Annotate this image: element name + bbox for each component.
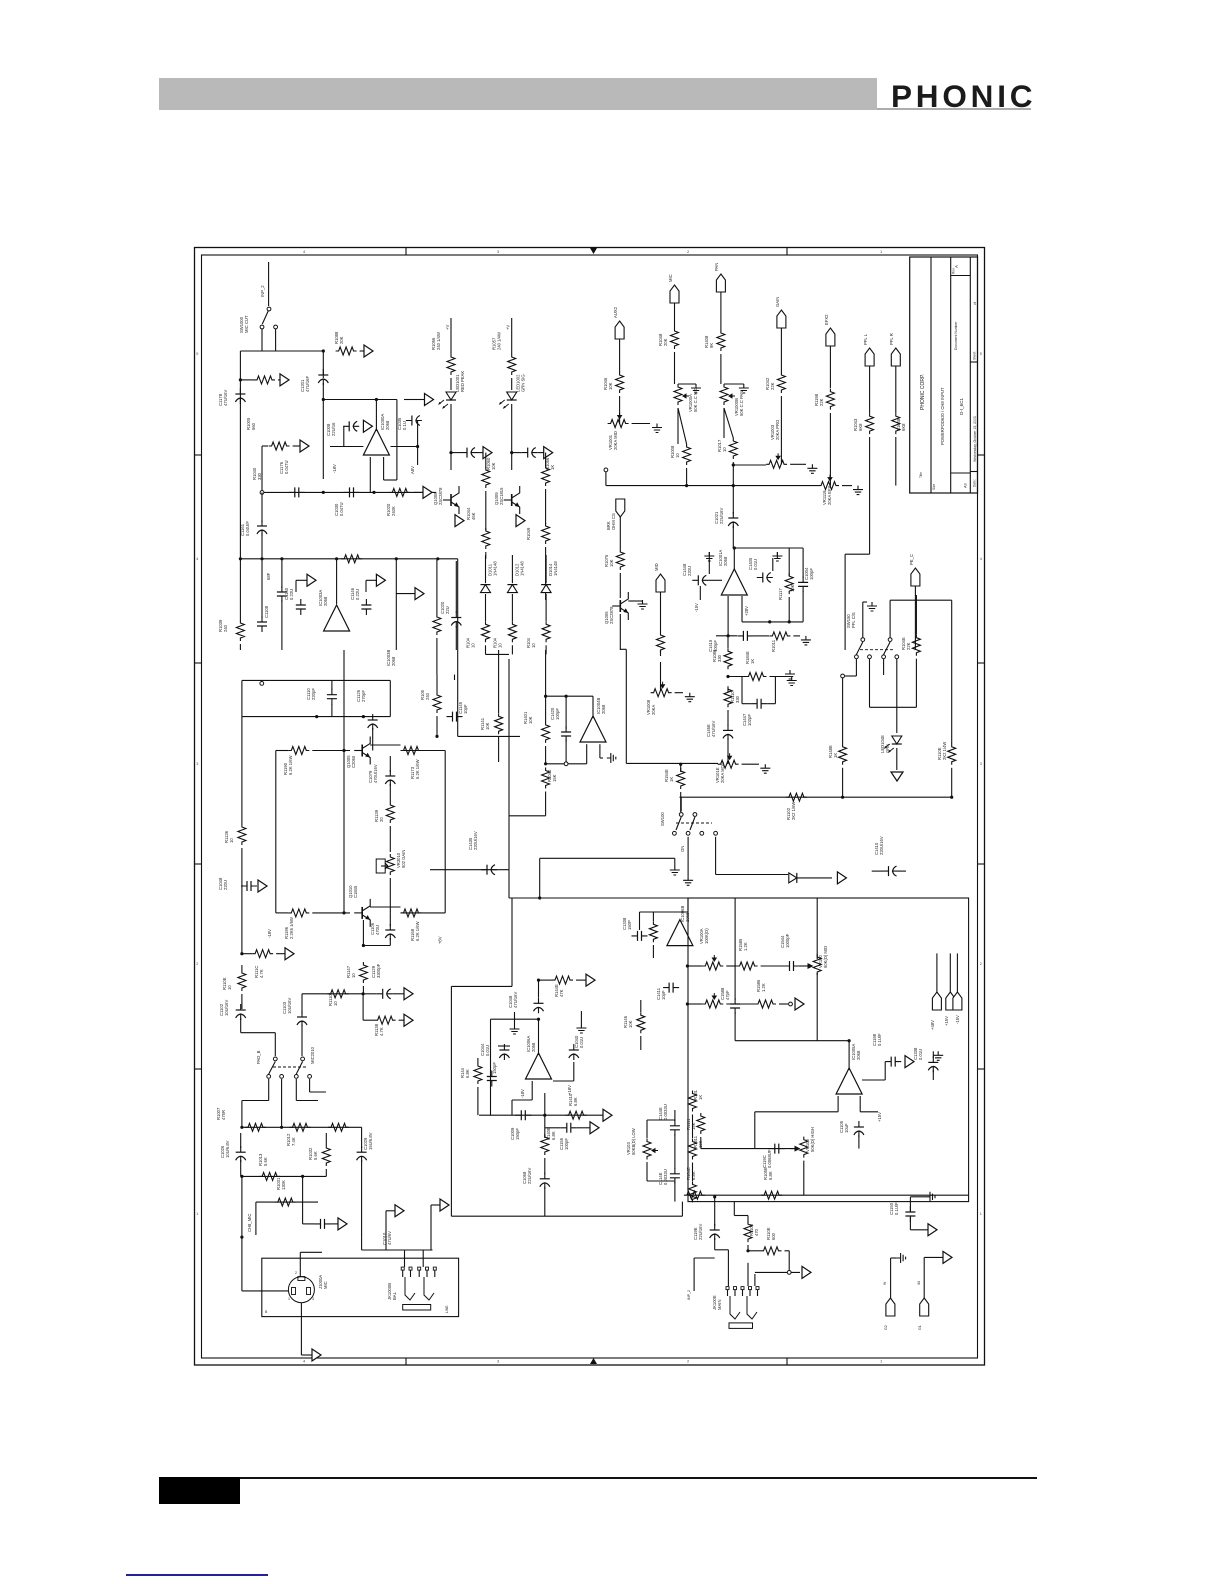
svg-text:47pF: 47pF: [725, 990, 730, 1000]
svg-text:330: 330: [257, 472, 262, 480]
svg-text:1K: 1K: [833, 753, 838, 758]
svg-text:10U/16V: 10U/16V: [287, 997, 292, 1014]
svg-text:GAIN: GAIN: [775, 297, 780, 307]
svg-text:15K: 15K: [552, 774, 557, 782]
svg-text:R1049: R1049: [526, 527, 531, 540]
svg-text:10K: 10K: [491, 462, 496, 470]
svg-text:2068: 2068: [601, 704, 606, 714]
svg-text:0.0068UF: 0.0068UF: [767, 1149, 772, 1168]
svg-text:15K: 15K: [691, 1122, 696, 1130]
svg-text:10: 10: [471, 643, 476, 648]
svg-text:475R: 475R: [221, 1110, 226, 1120]
svg-text:470U/16V: 470U/16V: [373, 764, 378, 783]
svg-text:10: 10: [333, 1001, 338, 1006]
svg-text:0.01U: 0.01U: [579, 1037, 584, 1048]
svg-text:4.7K: 4.7K: [259, 969, 264, 978]
svg-text:PAD_B: PAD_B: [256, 1050, 261, 1064]
svg-text:of: of: [973, 302, 977, 305]
svg-text:POWERPOD620 / CH8 INPUT: POWERPOD620 / CH8 INPUT: [940, 387, 945, 445]
svg-text:1K: 1K: [698, 1095, 703, 1100]
svg-text:+8V: +8V: [438, 936, 443, 944]
svg-text:220U: 220U: [687, 566, 692, 576]
svg-text:Title: Title: [919, 472, 923, 478]
svg-text:22K: 22K: [819, 398, 824, 406]
svg-text:330: 330: [717, 654, 722, 662]
svg-text:2068: 2068: [723, 556, 728, 566]
svg-text:+15V: +15V: [877, 1112, 882, 1122]
svg-text:240K: 240K: [391, 506, 396, 516]
svg-text:50K(D) MID: 50K(D) MID: [823, 946, 828, 968]
svg-text:0.01U: 0.01U: [485, 1045, 490, 1056]
svg-text:1N4148: 1N4148: [519, 561, 524, 576]
svg-text:20KA MID: 20KA MID: [613, 431, 618, 450]
svg-text:20KA MON: 20KA MON: [720, 762, 725, 783]
svg-text:22U/16V: 22U/16V: [698, 1223, 703, 1240]
svg-text:2SC1815: 2SC1815: [499, 487, 504, 505]
svg-text:2068: 2068: [391, 656, 396, 666]
svg-text:6K8: 6K8: [858, 423, 863, 431]
svg-text:GRN SIG: GRN SIG: [521, 374, 526, 392]
svg-text:2: 2: [295, 1271, 297, 1275]
svg-text:1N4148: 1N4148: [553, 561, 558, 576]
svg-text:50K C.C PAN: 50K C.C PAN: [739, 391, 744, 416]
svg-text:220pF: 220pF: [311, 688, 316, 700]
svg-text:22U/16: 22U/16: [331, 422, 336, 436]
svg-text:150pF: 150pF: [492, 1062, 497, 1074]
svg-text:SW100: SW100: [660, 812, 665, 826]
svg-text:+V: +V: [506, 325, 511, 330]
svg-text:Document Number: Document Number: [954, 321, 958, 350]
svg-text:20K: 20K: [339, 336, 344, 344]
svg-text:1K: 1K: [750, 659, 755, 664]
svg-text:6.2K 1/6W: 6.2K 1/6W: [415, 759, 420, 779]
svg-text:+V: +V: [445, 325, 450, 330]
svg-text:1000pF: 1000pF: [785, 933, 790, 948]
svg-text:4: 4: [980, 557, 982, 561]
svg-text:240 1/4W: 240 1/4W: [436, 332, 441, 350]
svg-text:50K(D) HIGH: 50K(D) HIGH: [810, 1127, 815, 1152]
svg-text:1K: 1K: [669, 777, 674, 782]
svg-text:-18V: -18V: [267, 929, 272, 938]
svg-text:220U/16V: 220U/16V: [879, 836, 884, 855]
svg-text:Size: Size: [932, 484, 936, 490]
svg-text:10: 10: [675, 453, 680, 458]
svg-text:150pF: 150pF: [515, 1128, 520, 1140]
svg-text:PAN: PAN: [714, 263, 719, 271]
svg-text:10K: 10K: [628, 1020, 633, 1028]
svg-text:6.8K: 6.8K: [573, 1097, 578, 1106]
svg-text:2SC2878: 2SC2878: [609, 606, 614, 624]
svg-text:ON: ON: [680, 846, 685, 852]
svg-text:A3: A3: [964, 483, 968, 488]
svg-text:22U: 22U: [445, 606, 450, 614]
svg-text:PFL R: PFL R: [889, 333, 894, 345]
svg-text:2068: 2068: [856, 1050, 861, 1060]
svg-text:10uF: 10uF: [844, 1123, 849, 1133]
svg-text:600: 600: [771, 1232, 776, 1240]
svg-text:47U/16F: 47U/16F: [305, 375, 310, 392]
svg-text:50KB(D) LOW: 50KB(D) LOW: [631, 1128, 636, 1155]
svg-text:10: 10: [531, 643, 536, 648]
svg-text:3: 3: [196, 762, 198, 766]
svg-text:RED PEAK: RED PEAK: [460, 371, 465, 392]
svg-text:470: 470: [754, 1228, 759, 1236]
svg-text:100pF: 100pF: [564, 1138, 569, 1150]
svg-text:470U: 470U: [375, 925, 380, 935]
svg-text:10pF: 10pF: [661, 990, 666, 1000]
svg-text:-18V: -18V: [520, 1089, 525, 1098]
svg-text:560: 560: [251, 422, 256, 430]
svg-text:2: 2: [196, 962, 198, 966]
svg-text:MIC: MIC: [323, 1281, 328, 1289]
svg-text:MIC: MIC: [668, 274, 673, 282]
svg-text:C1845: C1845: [353, 885, 358, 898]
svg-text:CH8_MIC: CH8_MIC: [247, 1214, 252, 1232]
svg-text:102pF: 102pF: [747, 714, 752, 726]
svg-text:15U/6.8V: 15U/6.8V: [368, 1132, 373, 1150]
svg-text:B: B: [265, 1310, 268, 1314]
svg-text:BAL: BAL: [392, 1291, 397, 1300]
svg-text:0.1U: 0.1U: [402, 421, 407, 430]
svg-text:1K: 1K: [550, 465, 555, 470]
svg-text:502 GAIN: 502 GAIN: [401, 850, 406, 868]
svg-text:2068: 2068: [385, 420, 390, 430]
svg-text:10pF: 10pF: [463, 704, 468, 714]
svg-text:G2: G2: [884, 1325, 888, 1330]
svg-text:MID: MID: [654, 563, 659, 571]
svg-text:6.8K: 6.8K: [465, 1069, 470, 1078]
svg-text:3: 3: [312, 1297, 314, 1301]
svg-text:0.01U: 0.01U: [753, 559, 758, 570]
svg-text:10K: 10K: [698, 1140, 703, 1148]
svg-text:22U/16V: 22U/16V: [527, 1167, 532, 1184]
svg-text:EFX2: EFX2: [824, 314, 829, 325]
svg-text:Wednesday, October 15, 2003: Wednesday, October 15, 2003: [973, 416, 977, 462]
svg-text:270pF: 270pF: [361, 690, 366, 702]
svg-text:0.1U/F: 0.1U/F: [877, 1033, 882, 1046]
svg-text:20KA: 20KA: [651, 705, 656, 715]
svg-text:7.4K: 7.4K: [291, 1137, 296, 1146]
svg-text:20KA EFX: 20KA EFX: [827, 485, 832, 505]
svg-text:Sheet: Sheet: [973, 352, 977, 360]
svg-text:240: 240: [425, 692, 430, 700]
svg-text:MIC2010: MIC2010: [310, 1046, 315, 1064]
svg-text:PFL C/S: PFL C/S: [851, 612, 856, 628]
svg-text:100pF: 100pF: [809, 568, 814, 580]
svg-text:1: 1: [880, 249, 883, 254]
svg-text:AUX2: AUX2: [613, 306, 618, 318]
svg-text:2K2 1/4W: 2K2 1/4W: [942, 742, 947, 760]
svg-text:130K: 130K: [281, 1180, 286, 1190]
svg-text:2.2K6 1/6W: 2.2K6 1/6W: [289, 917, 294, 939]
svg-text:150P: 150P: [627, 920, 632, 930]
svg-text:22K: 22K: [906, 642, 911, 650]
svg-text:2: 2: [980, 962, 982, 966]
svg-text:50K C.C MIC: 50K C.C MIC: [693, 387, 698, 412]
svg-text:A: A: [954, 265, 959, 268]
svg-text:PE_C: PE_C: [909, 554, 914, 565]
svg-text:10: 10: [722, 447, 727, 452]
svg-text:0.22U: 0.22U: [289, 589, 294, 600]
svg-text:6.8K: 6.8K: [768, 1171, 773, 1180]
svg-text:47U/16V: 47U/16V: [513, 991, 518, 1008]
svg-text:44: 44: [917, 1281, 921, 1285]
svg-text:47U/16V: 47U/16V: [711, 720, 716, 737]
svg-text:+28V: +28V: [744, 606, 749, 616]
svg-text:LINE: LINE: [445, 1305, 449, 1313]
svg-text:INP_2: INP_2: [260, 285, 265, 297]
svg-text:5: 5: [196, 352, 198, 356]
svg-text:9K: 9K: [709, 343, 714, 348]
svg-text:10K: 10K: [528, 716, 533, 724]
svg-text:10K: 10K: [609, 559, 614, 567]
svg-text:5: 5: [980, 352, 982, 356]
svg-text:2068: 2068: [531, 1042, 536, 1052]
svg-text:240: 240: [223, 624, 228, 632]
svg-text:-15V: -15V: [694, 603, 699, 612]
svg-text:3: 3: [497, 249, 500, 254]
svg-text:10U/6.8V: 10U/6.8V: [225, 1140, 230, 1158]
svg-text:C2060: C2060: [351, 755, 356, 768]
svg-text:1: 1: [196, 1212, 198, 1216]
svg-text:Date:: Date:: [973, 479, 977, 487]
svg-text:0.0033U: 0.0033U: [663, 1169, 668, 1185]
svg-text:4.7K: 4.7K: [379, 1027, 384, 1036]
svg-text:INP_2: INP_2: [687, 1290, 691, 1300]
svg-text:47K: 47K: [559, 989, 564, 997]
svg-text:MAIN: MAIN: [717, 1300, 722, 1310]
svg-text:C1108: C1108: [264, 605, 269, 618]
svg-text:4: 4: [196, 557, 198, 561]
svg-text:6.8K: 6.8K: [551, 1131, 556, 1140]
svg-text:A8V: A8V: [410, 466, 415, 474]
svg-text:5.6K: 5.6K: [313, 1151, 318, 1160]
svg-text:10: 10: [497, 643, 502, 648]
svg-text:20K: 20K: [663, 338, 668, 346]
svg-text:MIC CUT: MIC CUT: [244, 315, 249, 333]
svg-text:OHM CS: OHM CS: [611, 513, 616, 530]
svg-text:GRN: GRN: [885, 744, 890, 753]
svg-text:46K: 46K: [471, 512, 476, 520]
svg-text:47U/6V: 47U/6V: [387, 1231, 392, 1245]
svg-text:10: 10: [227, 985, 232, 990]
svg-text:10K: 10K: [608, 382, 613, 390]
svg-text:5.6K: 5.6K: [263, 1157, 268, 1166]
svg-text:10U/16V: 10U/16V: [224, 999, 229, 1016]
svg-text:10: 10: [351, 973, 356, 978]
svg-text:+15V: +15V: [944, 1016, 949, 1026]
svg-text:R1011: R1011: [771, 639, 776, 652]
svg-text:PFL L: PFL L: [863, 333, 868, 345]
svg-text:4: 4: [303, 1359, 306, 1364]
svg-text:2068: 2068: [323, 596, 328, 606]
svg-text:1.2K: 1.2K: [743, 942, 748, 951]
svg-text:R1117: R1117: [778, 588, 783, 600]
svg-text:10K: 10K: [485, 722, 490, 730]
svg-text:1N4148: 1N4148: [493, 561, 498, 576]
svg-text:+48V: +48V: [930, 1020, 935, 1030]
svg-text:0.22U: 0.22U: [355, 589, 360, 600]
svg-text:10: 10: [229, 838, 234, 843]
svg-text:330: 330: [735, 695, 740, 703]
svg-text:20KA PRO: 20KA PRO: [775, 419, 780, 440]
svg-text:0.1U/F: 0.1U/F: [894, 1202, 899, 1215]
svg-text:240 1/4W: 240 1/4W: [497, 332, 502, 350]
svg-text:0.01U: 0.01U: [918, 1049, 923, 1060]
svg-text:+18V: +18V: [567, 1085, 572, 1095]
svg-text:G1: G1: [918, 1325, 922, 1330]
svg-text:2K2 1/6W: 2K2 1/6W: [791, 802, 796, 820]
svg-text:0.047U: 0.047U: [284, 460, 289, 474]
svg-text:-15V: -15V: [955, 1015, 960, 1024]
svg-text:-18V: -18V: [332, 464, 337, 473]
svg-text:22K: 22K: [770, 382, 775, 390]
svg-text:6K8: 6K8: [901, 423, 906, 431]
svg-text:1: 1: [980, 1212, 982, 1216]
svg-text:1: 1: [288, 1297, 290, 1301]
svg-text:3: 3: [980, 762, 982, 766]
svg-text:47U/16V: 47U/16V: [223, 389, 228, 406]
svg-text:1: 1: [880, 1359, 883, 1364]
svg-text:20: 20: [379, 817, 384, 822]
svg-text:2: 2: [687, 1359, 690, 1364]
svg-text:4: 4: [303, 249, 306, 254]
svg-text:22U/16V: 22U/16V: [719, 507, 724, 524]
svg-text:3300pF: 3300pF: [376, 963, 381, 978]
svg-text:2: 2: [687, 249, 690, 254]
svg-text:D-I_6C1: D-I_6C1: [959, 397, 964, 415]
svg-text:6.2K 1/6W: 6.2K 1/6W: [288, 755, 293, 775]
svg-text:6.2K 1/6W: 6.2K 1/6W: [415, 921, 420, 941]
svg-text:100K(D): 100K(D): [704, 928, 709, 944]
svg-text:2SC2878: 2SC2878: [438, 487, 443, 505]
svg-text:68F: 68F: [266, 572, 271, 580]
svg-text:1.2K: 1.2K: [761, 983, 766, 992]
svg-text:PHONIC CORP.: PHONIC CORP.: [920, 374, 926, 410]
svg-text:100pF: 100pF: [555, 708, 560, 720]
svg-text:0.047U: 0.047U: [339, 502, 344, 516]
svg-text:3: 3: [497, 1359, 500, 1364]
svg-text:0.04U/F: 0.04U/F: [245, 521, 250, 536]
svg-text:0.0033U: 0.0033U: [663, 1104, 668, 1120]
svg-text:W: W: [883, 1281, 887, 1285]
svg-text:220U: 220U: [223, 880, 228, 890]
svg-text:220U/16V: 220U/16V: [473, 831, 478, 850]
svg-text:6.8K: 6.8K: [691, 1171, 696, 1180]
svg-text:10K: 10K: [790, 584, 795, 592]
